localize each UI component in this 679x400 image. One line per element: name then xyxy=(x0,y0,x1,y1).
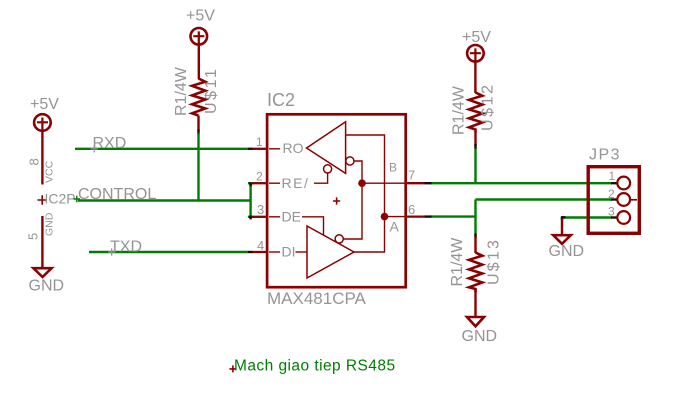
svg-text:TXD: TXD xyxy=(110,239,142,256)
svg-text:+5V: +5V xyxy=(30,96,59,113)
svg-text:VCC: VCC xyxy=(44,160,56,183)
svg-text:R1/4W: R1/4W xyxy=(451,85,468,135)
svg-text:6: 6 xyxy=(408,202,415,217)
svg-text:+5V: +5V xyxy=(186,8,215,25)
svg-text:1: 1 xyxy=(609,169,616,183)
svg-text:RXD: RXD xyxy=(93,135,127,152)
svg-text:A: A xyxy=(390,219,400,235)
svg-text:DE: DE xyxy=(282,209,301,225)
svg-text:B: B xyxy=(389,161,397,175)
svg-text:RE/: RE/ xyxy=(282,175,310,191)
svg-text:U$12: U$12 xyxy=(480,82,497,131)
svg-text:CONTROL: CONTROL xyxy=(78,186,156,203)
svg-text:4: 4 xyxy=(257,238,264,253)
svg-text:R1/4W: R1/4W xyxy=(449,237,466,287)
svg-text:7: 7 xyxy=(408,168,415,183)
svg-text:Mach giao tiep RS485: Mach giao tiep RS485 xyxy=(234,358,396,375)
svg-text:1: 1 xyxy=(256,135,263,149)
svg-text:GND: GND xyxy=(29,278,65,295)
svg-text:2: 2 xyxy=(608,187,615,201)
svg-text:IC2: IC2 xyxy=(267,90,295,110)
svg-text:+5V: +5V xyxy=(462,29,491,46)
svg-text:RO: RO xyxy=(283,140,304,156)
svg-text:3: 3 xyxy=(608,205,615,219)
svg-text:3: 3 xyxy=(257,202,264,217)
svg-text:JP3: JP3 xyxy=(589,147,621,164)
svg-text:GND: GND xyxy=(549,243,585,260)
svg-text:DI: DI xyxy=(282,244,296,260)
svg-text:5: 5 xyxy=(26,233,41,240)
svg-text:GND: GND xyxy=(44,212,56,236)
svg-text:MAX481CPA: MAX481CPA xyxy=(267,289,367,308)
svg-text:U$13: U$13 xyxy=(486,238,503,285)
svg-text:GND: GND xyxy=(462,328,498,345)
svg-text:8: 8 xyxy=(27,158,42,165)
svg-text:U$11: U$11 xyxy=(203,67,220,114)
svg-text:2: 2 xyxy=(256,170,263,184)
svg-text:R1/4W: R1/4W xyxy=(173,66,190,116)
svg-text:IC2P: IC2P xyxy=(45,191,76,207)
